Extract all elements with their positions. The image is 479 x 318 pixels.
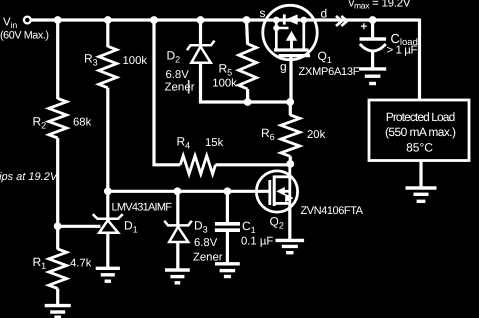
- svg-text:6.8V: 6.8V: [166, 69, 190, 81]
- input terminal Vin: [24, 17, 31, 24]
- svg-text:Zener: Zener: [165, 82, 195, 94]
- node junction dot at R2/R1/D1-ref: [54, 222, 62, 230]
- svg-text:+: +: [361, 21, 368, 33]
- svg-text:ZXMP6A13F: ZXMP6A13F: [299, 66, 360, 78]
- resistor R5: [239, 44, 257, 89]
- ground (D3): [165, 270, 190, 283]
- resistor R2: [49, 99, 67, 139]
- wire R5 top: [247, 20, 248, 45]
- node junction dot Q2 drain node: [286, 160, 294, 168]
- node junction dot C1 top: [224, 187, 232, 195]
- wire D2 anode down and right: [201, 63, 291, 102]
- svg-text:g: g: [280, 60, 287, 74]
- wire right vertical rail down to load box: [418, 19, 421, 100]
- wire load box to ground: [419, 161, 422, 187]
- zener diode D3: [164, 221, 192, 242]
- wire R2 bottom to R1: [56, 138, 59, 250]
- transistor Q2 ZVN4106FTA (N-MOSFET): [256, 171, 297, 212]
- zener diode D2: [187, 41, 215, 63]
- svg-text:6.8V: 6.8V: [194, 237, 218, 249]
- ground (C1): [215, 264, 240, 277]
- wire Q2 source to ground: [288, 203, 291, 239]
- wire Q2 drain vertical: [288, 164, 291, 178]
- ground (Cload): [359, 69, 386, 84]
- wire gate node to R6: [289, 102, 292, 116]
- resistor R6: [281, 115, 300, 156]
- wire D1 cathode: [106, 191, 109, 219]
- svg-text:4.7k: 4.7k: [70, 258, 92, 270]
- wire C1 bottom to ground: [226, 230, 229, 263]
- text caret artifact: [188, 80, 190, 94]
- resistor R4: [180, 156, 215, 174]
- wire R5 bottom: [246, 89, 249, 103]
- resistor R1: [49, 249, 67, 289]
- svg-text:100k: 100k: [123, 55, 148, 67]
- ground (Q2): [276, 240, 305, 252]
- ground (R1): [45, 306, 71, 318]
- svg-text:d: d: [321, 7, 328, 21]
- svg-text:ZVN4106FTA: ZVN4106FTA: [301, 205, 364, 217]
- wire branch down to R4: [154, 20, 180, 165]
- shunt regulator D1 LMV431AIMF (zener symbol): [93, 214, 123, 233]
- wire Q1 gate down: [289, 56, 292, 102]
- capacitor C1: [215, 224, 240, 230]
- svg-text:15k: 15k: [205, 137, 224, 149]
- wire R3 branch vertical: [106, 20, 109, 47]
- resistor R3: [99, 46, 117, 88]
- node junction dot gate node: [286, 98, 294, 106]
- svg-text:s: s: [260, 6, 266, 20]
- wire R6 bottom: [289, 156, 292, 165]
- svg-text:LMV431AIMF: LMV431AIMF: [112, 202, 173, 214]
- wire R2 branch vertical: [56, 20, 59, 99]
- svg-text:0.1 µF: 0.1 µF: [241, 236, 273, 248]
- svg-text:85°C: 85°C: [406, 140, 433, 154]
- node junction dots on top rail: [54, 16, 377, 24]
- svg-text:> 1 µF: > 1 µF: [387, 45, 418, 57]
- wire R1 to ground: [56, 289, 59, 305]
- wire D2 cathode: [199, 20, 202, 45]
- wire mid rail to Q2 gate: [108, 190, 270, 193]
- svg-text:68k: 68k: [73, 117, 92, 129]
- wire R4 to Q2 drain node: [216, 163, 291, 166]
- wire top rail from Vin to right edge corner: [32, 18, 420, 21]
- wire D3 cathode: [176, 191, 179, 225]
- current direction arrow marker: [336, 16, 347, 26]
- svg-text:(60V Max.): (60V Max.): [0, 30, 49, 42]
- svg-text:20k: 20k: [307, 129, 326, 141]
- svg-text:Zener: Zener: [193, 252, 223, 264]
- wire reference to D1: [58, 225, 101, 228]
- node junction dot D1 top: [104, 187, 112, 195]
- node junction dot D3 top: [174, 187, 182, 195]
- capacitor Cload (polarized): [360, 39, 387, 51]
- wire D1 anode to ground: [106, 233, 109, 267]
- wire C1 top: [226, 191, 229, 223]
- ground (load): [406, 188, 437, 201]
- svg-text:Protected Load: Protected Load: [386, 110, 456, 124]
- svg-text:(550 mA max.): (550 mA max.): [385, 125, 456, 139]
- protected load box: [369, 100, 469, 161]
- wire R3 bottom down to mid rail: [106, 88, 109, 192]
- svg-text:vmax = 19.2V: vmax = 19.2V: [349, 0, 411, 11]
- wire Cload top: [371, 20, 374, 39]
- wire D3 anode to ground: [176, 242, 179, 269]
- node junction dot R5 bottom: [244, 98, 252, 106]
- wire Cload bottom to ground: [371, 50, 374, 68]
- svg-text:Trips at 19.2V: Trips at 19.2V: [0, 171, 59, 183]
- transistor Q1 ZXMP6A13F (P-MOSFET): [263, 5, 317, 59]
- svg-text:100k: 100k: [212, 78, 237, 90]
- ground (D1): [96, 268, 120, 281]
